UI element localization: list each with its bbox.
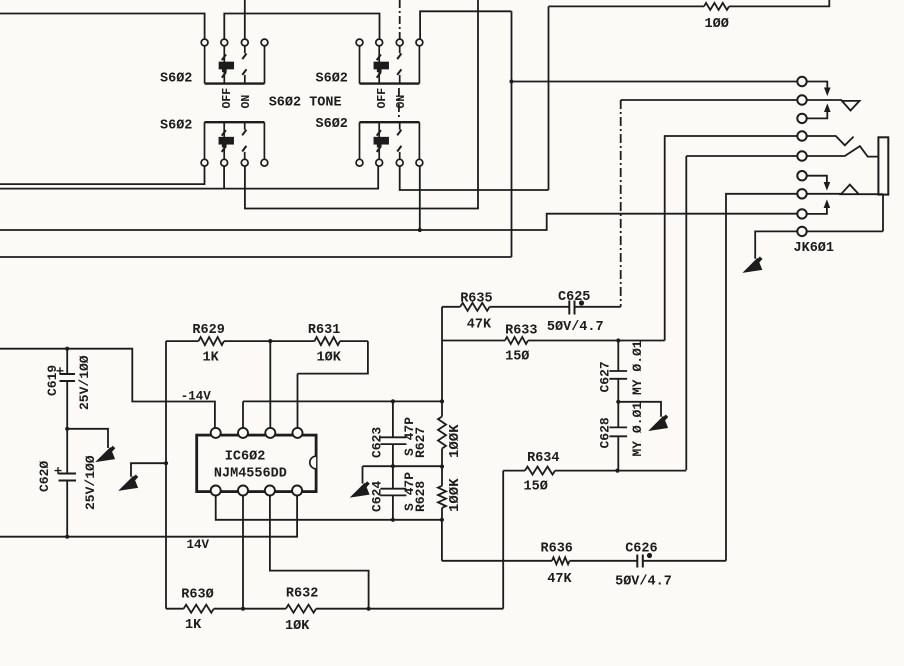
wire: R633 wire from x=442 to x=664.7 [442, 340, 665, 342]
jack JK601: plug body rectangle [878, 137, 888, 194]
node: dot C627/C628 mid [616, 400, 620, 404]
svg-text:MY Ø.Ø1: MY Ø.Ø1 [630, 340, 645, 395]
svg-text:R629: R629 [192, 323, 224, 338]
svg-text:C623: C623 [370, 427, 385, 458]
node: dot C627 top on R633 wire [616, 338, 620, 342]
wire: R631 right end down-left-down to pin4 [298, 341, 368, 428]
wire: R630-R632 bottom wire [166, 608, 503, 610]
node: dot C628 bottom on R634 wire [615, 469, 619, 473]
resistor R635 47K [460, 303, 489, 311]
resistor R633 150 [505, 337, 528, 344]
svg-text:OFF: OFF [221, 88, 234, 109]
node: dots on x=442 column [440, 399, 444, 403]
svg-text:15Ø: 15Ø [524, 480, 548, 495]
svg-text:25V/1ØØ: 25V/1ØØ [77, 355, 92, 410]
wire: JK601 c2 line left then dashed drop at x=620.7 to R635/C625 wire [621, 99, 802, 101]
svg-text:R628: R628 [413, 481, 428, 512]
svg-text:S6Ø2: S6Ø2 [316, 117, 348, 132]
svg-text:C624: C624 [370, 481, 385, 512]
wire: sw2 pin3 dashed linkage riser to top edge [399, 0, 401, 39]
wire: net 100-ohm: from (548.5,190) up, right through R, to top edge at 829.3 [549, 0, 830, 190]
svg-text:R627: R627 [413, 427, 428, 458]
node: junction dot at (419.8,230) [418, 228, 422, 232]
node: dot R632 right junction [367, 607, 371, 611]
switch S602 sw1 (top left) [201, 39, 268, 84]
svg-text:15Ø: 15Ø [505, 350, 529, 365]
svg-text:ON: ON [395, 95, 408, 109]
wire: R634 output wire [503, 470, 686, 472]
capacitor C620 (on x=67.2) [59, 474, 77, 481]
wire: jack tip contact line from node (511.5,81.5) to JK601 c1 [512, 81, 803, 83]
node: dot on feedback column ground branch [164, 461, 168, 465]
svg-text:C627: C627 [598, 361, 613, 392]
wire: R635/C625 wire from x=442 to x=620.7 [442, 306, 621, 308]
wire: -14V rail from left edge, jog down, to IC pin1 [0, 349, 215, 428]
wire: pin6 column down to R630/R632 junction [242, 496, 244, 609]
IC602 bottom pin circles [211, 486, 221, 496]
wire: branch to ground from feedback column [131, 463, 166, 477]
svg-text:MY Ø.Ø1: MY Ø.Ø1 [630, 402, 645, 457]
wire: S602 sw1 pin2 to sw2 pin2 [224, 14, 379, 40]
resistor R629 1K [199, 337, 224, 345]
polarity + of C619 [57, 367, 64, 374]
wire: JK601 c5 line left then dashed drop at x=686.3 to R634 wire [686, 155, 802, 157]
capacitor C627 column x=618.3 [609, 341, 627, 402]
wire: C627/C628 mid to ground [618, 402, 661, 417]
svg-text:OFF: OFF [376, 88, 389, 109]
svg-text:47K: 47K [467, 318, 492, 333]
svg-text:25V/1ØØ: 25V/1ØØ [83, 455, 98, 510]
wire: C619/C620 midpoint to ground [67, 429, 108, 448]
jack JK601 internals: c1 NC arm with down arrow [802, 82, 827, 89]
svg-text:R631: R631 [308, 323, 340, 338]
wire: output net y=401.4 pin2 branch to C623/R627 top [243, 401, 442, 427]
svg-text:C62Ø: C62Ø [37, 461, 52, 492]
jack JK601: c7 ring triangle contact [802, 185, 883, 195]
svg-text:NJM4556DD: NJM4556DD [214, 467, 287, 482]
wire: vertical net x=511.5 from y=11.3 down to y=257 [511, 11, 513, 257]
wire: pin5 net corner down to R636 wire [441, 520, 443, 561]
ground symbol near IC [121, 476, 138, 490]
ground symbol below C623/C624 mid [352, 483, 369, 497]
resistor R630 1K [184, 605, 214, 613]
jack JK601: c5 peak contact to plug body [802, 146, 878, 157]
wire: 14V rail from left edge to IC pin8 [0, 496, 297, 537]
svg-text:5ØV/4.7: 5ØV/4.7 [547, 320, 604, 335]
svg-text:C626: C626 [625, 542, 657, 557]
node: dot C623 top [391, 399, 395, 403]
jack JK601: c3 arm with up arrow to c2 line [802, 112, 827, 119]
wire: long horizontal y=257 from left edge to x=511.5 [0, 256, 512, 258]
svg-text:1K: 1K [185, 618, 202, 633]
svg-text:ON: ON [240, 95, 253, 109]
capacitor C628 column [609, 402, 627, 471]
wire: JK601 c7 line left then drop at x=726 to R636/C626 wire [726, 194, 802, 561]
svg-text:R634: R634 [527, 451, 559, 466]
svg-text:47K: 47K [547, 572, 572, 587]
wire: sw3 pin1 down and left to edge [0, 166, 205, 184]
svg-text:C619: C619 [45, 365, 60, 396]
svg-text:R63Ø: R63Ø [181, 588, 213, 603]
wire: R627/R628 column x=442 from R635 corner down to pin5 wire [441, 307, 443, 520]
node: dot R629/R631 junction to pin3 [268, 339, 272, 343]
switch S602 sw4 (lower right) [356, 122, 423, 166]
wire: R636/C626 wire to x=726 [442, 560, 726, 562]
svg-text:1ØØK: 1ØØK [447, 478, 463, 512]
svg-text:1K: 1K [203, 351, 220, 366]
wire: sw2 pin4 up and right to node at x=511.5 [420, 11, 511, 39]
polarity + of C620 [55, 467, 62, 474]
node: dot between C619 and C620 [65, 427, 69, 431]
wire: ganged switch linkage (dash-dot) between sw2 and sw4 [398, 88, 400, 120]
wire: sw4 pin4 drop to y=230 line [419, 166, 421, 230]
svg-text:C628: C628 [598, 417, 613, 448]
IC602 box [197, 435, 316, 492]
svg-text:R633: R633 [505, 324, 537, 339]
node: dot C619 top at rail [65, 347, 69, 351]
svg-text:1ØK: 1ØK [285, 619, 310, 634]
capacitor C623 column x=392.9 [380, 401, 406, 466]
svg-text:1ØØ: 1ØØ [705, 17, 729, 32]
svg-text:R632: R632 [286, 587, 318, 602]
svg-text:S6Ø2: S6Ø2 [160, 119, 192, 134]
wire: sw4 pin3 down to L2 line and right to 548.5 [400, 166, 549, 190]
capacitor C626 50V/4.7 (in line) [637, 555, 643, 568]
wire: plug body down to c9 line [802, 195, 883, 232]
jack JK601: c2 tip triangle [802, 100, 860, 111]
wire: R634 left end column down to bottom wire [502, 471, 504, 609]
jack JK601: c4 check contact [802, 136, 854, 145]
node: dot C624 top / C623 bottom [391, 464, 395, 468]
ground symbol mid supply [98, 447, 115, 461]
wire: sw3 pin3 net down, right, up to top edge at x=478 [245, 0, 478, 209]
wire: R629 feedback column x=166 down to R630 [165, 341, 167, 609]
node: dot pin6/R630/R632 junction [241, 607, 245, 611]
switch S602 sw2 (top right) [356, 39, 423, 84]
wire: bottom pin5 wire down right to x=441.9 [216, 496, 442, 520]
wire: JK601 c9 line with ground drop at x=755.2 [755, 231, 802, 258]
wire: C623/C624 mid junction line with ground stub [363, 466, 443, 483]
wire: pin7 column down jog right to R632 right junction [270, 496, 369, 609]
switch S602 sw3 (lower left) [201, 122, 268, 166]
jack JK601: c8 arm with up arrow [802, 208, 827, 214]
wire: pin3 riser [269, 341, 271, 428]
jack JK601: c6 arm with down arrow [802, 176, 827, 183]
svg-text:-14V: -14V [181, 390, 212, 404]
svg-text:S6Ø2: S6Ø2 [316, 72, 348, 87]
svg-text:5ØV/4.7: 5ØV/4.7 [615, 575, 672, 590]
node: dot C624 bottom on pin5 wire [391, 518, 395, 522]
wire: JK601 c4 line left then drop at x=664.7 to R633 wire [665, 136, 802, 341]
capacitor C619 column (on x=67.2) [66, 349, 68, 374]
resistor R634 150 [525, 467, 555, 475]
svg-text:S6Ø2 TONE: S6Ø2 TONE [269, 96, 342, 111]
capacitor C624 column x=392.9 [380, 466, 406, 520]
ground symbol at jack sleeve [745, 258, 762, 272]
wire: long line y=230 from left edge, jog up at 546.7, to JK601 c8 [0, 214, 802, 230]
svg-text:JK6Ø1: JK6Ø1 [794, 241, 835, 256]
resistor 100 (top right) [704, 3, 729, 10]
ground symbol right of C627/C628 [651, 416, 668, 430]
resistor R636 47K [552, 557, 570, 564]
IC602 top pin circles [211, 428, 221, 438]
capacitor C625 50V/4.7 (in line) [569, 301, 574, 315]
svg-text:S6Ø2: S6Ø2 [160, 72, 192, 87]
node: dot C620 bottom at 14V rail [65, 535, 69, 539]
resistor R631 10K [315, 337, 340, 345]
jack JK601 contact circles c1-c9 [797, 77, 806, 86]
wire: sw3 pin2 / sw4 pin2 common line to left edge [0, 166, 378, 189]
wire: net to S602 sw1 pole 1 from left edge [0, 14, 205, 40]
svg-text:1ØØK: 1ØØK [447, 424, 463, 458]
svg-text:R635: R635 [460, 292, 492, 307]
svg-text:C625: C625 [558, 290, 590, 305]
IC602 notch on right edge [310, 456, 316, 469]
svg-text:1ØK: 1ØK [317, 351, 342, 366]
node: junction dot at (511.5,81.5) [509, 79, 513, 83]
resistor R628 100K (vertical) [438, 486, 446, 508]
svg-text:IC6Ø2: IC6Ø2 [225, 450, 266, 465]
wire: R629-R631 top wire [166, 340, 368, 342]
svg-text:14V: 14V [187, 538, 210, 552]
svg-text:R636: R636 [541, 542, 573, 557]
resistor R632 10K [286, 605, 316, 613]
resistor R627 100K (vertical) [438, 417, 446, 449]
wire: sw1 pin3 riser to top edge [244, 0, 246, 39]
